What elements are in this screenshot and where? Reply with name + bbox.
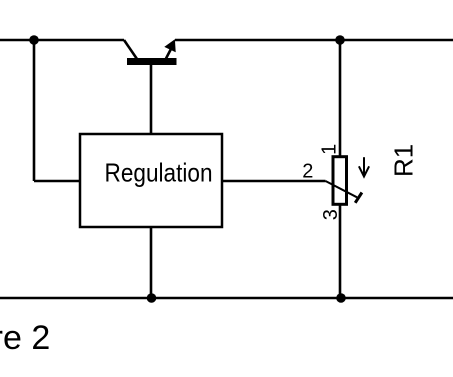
wire regulation box to potentiometer wiper xyxy=(222,180,326,183)
transistor Q1 base bar xyxy=(127,58,177,65)
junction node bottom-right xyxy=(336,293,346,303)
svg-text:Regulation: Regulation xyxy=(105,157,213,187)
potentiometer R1 body xyxy=(333,157,347,205)
transistor Q1 emitter arrowhead xyxy=(164,39,175,52)
potentiometer R1 adjustment arrowhead xyxy=(359,166,369,176)
regulation block U1 box xyxy=(80,134,222,227)
wire potentiometer pin 3 to ground rail xyxy=(339,204,342,298)
svg-text:R1: R1 xyxy=(389,144,419,177)
wire bottom rail xyxy=(0,297,453,300)
svg-text:2: 2 xyxy=(302,161,313,183)
potentiometer R1 wiper diagonal xyxy=(326,181,358,197)
transistor Q1 emitter lead xyxy=(166,47,172,59)
wire transistor base to regulation box xyxy=(150,65,153,134)
junction node top-right xyxy=(335,35,345,45)
transistor Q1 collector lead xyxy=(124,40,137,59)
svg-text:3: 3 xyxy=(320,209,342,220)
wire top rail right segment xyxy=(175,39,453,42)
wire top rail left segment xyxy=(0,39,124,42)
svg-text:Figure 2: Figure 2 xyxy=(0,319,50,357)
wire regulation box bottom to ground rail xyxy=(150,227,153,298)
wire left branch vertical xyxy=(33,40,36,181)
junction node top-left xyxy=(29,35,39,45)
wire top rail to potentiometer pin 1 xyxy=(339,40,342,157)
svg-text:1: 1 xyxy=(319,144,341,155)
potentiometer R1 wiper end tick xyxy=(355,193,362,203)
wire left branch horizontal into box xyxy=(34,180,80,183)
junction node bottom-left xyxy=(147,293,157,303)
potentiometer R1 adjustment arrow shaft xyxy=(363,157,365,176)
